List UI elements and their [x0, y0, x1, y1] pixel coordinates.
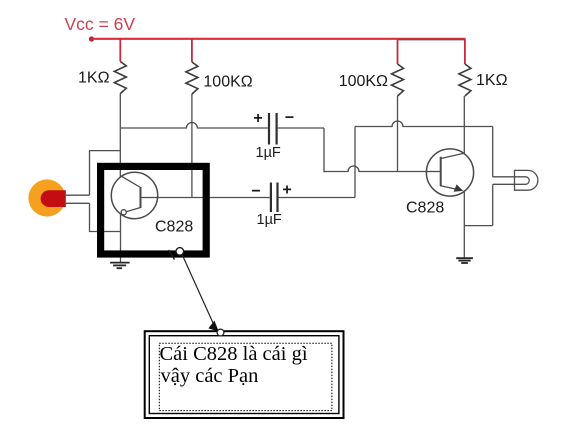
- svg-text:1KΩ: 1KΩ: [78, 70, 110, 87]
- wire R2 vertical down to Q1 base: [191, 94, 193, 198]
- wire R4 vertical down to Q2 collector: [463, 96, 465, 154]
- resistor R1 1KΩ: [114, 39, 126, 94]
- callout end circle: [217, 329, 224, 336]
- capacitor C2 1µF: [251, 182, 291, 229]
- svg-text:−: −: [285, 110, 294, 127]
- svg-text:−: −: [251, 183, 260, 200]
- wire A to Q2 base with hop over x355: [323, 166, 427, 171]
- lamp DS1: [493, 170, 538, 190]
- wire Q1 emitter vertical: [120, 215, 122, 263]
- svg-text:1KΩ: 1KΩ: [476, 72, 508, 89]
- wire lamp return horizontal: [464, 225, 492, 227]
- wire vertical x324: [323, 128, 325, 172]
- resistor R3 100KΩ: [392, 39, 404, 96]
- wire Q1 base horizontal: [158, 197, 270, 199]
- svg-text:1µF: 1µF: [256, 145, 281, 161]
- LED leads: [64, 194, 90, 196]
- wire B to Q2 collector node with hop over R3: [355, 121, 493, 127]
- Vcc rail: [89, 36, 466, 41]
- LED D1 glow: [28, 179, 65, 216]
- LED D1 body: [41, 190, 66, 207]
- transistor Q1 C828: [111, 172, 157, 218]
- resistor R4 1KΩ: [459, 39, 471, 96]
- svg-text:100KΩ: 100KΩ: [203, 74, 252, 91]
- callout anchor circle: [176, 248, 184, 256]
- callout anchor tick: [169, 250, 175, 260]
- wire lamp bottom vertical: [492, 184, 494, 225]
- ground right: [456, 258, 473, 263]
- svg-text:100KΩ: 100KΩ: [339, 73, 388, 90]
- wire LED bottom to emitter: [90, 203, 121, 231]
- svg-text:C828: C828: [155, 219, 193, 236]
- svg-text:C828: C828: [406, 200, 444, 217]
- wire bottom-cap right horizontal: [279, 197, 355, 199]
- callout arrowhead: [208, 321, 218, 332]
- svg-text:Vcc = 6V: Vcc = 6V: [65, 14, 136, 34]
- ground left: [110, 263, 130, 269]
- wire LED top to collector: [90, 151, 121, 196]
- svg-text:1µF: 1µF: [257, 212, 282, 228]
- text box inner border: [149, 336, 339, 414]
- wire lamp top vertical: [492, 127, 494, 177]
- svg-text:+: +: [282, 182, 291, 199]
- wire Q2 emitter vertical: [463, 191, 465, 259]
- wire vertical x355: [354, 127, 356, 198]
- wire R3 vertical down to Q2 base: [397, 96, 399, 172]
- wire top-cap right horizontal: [278, 127, 324, 129]
- callout leader line: [182, 255, 213, 324]
- text box dotted rect: [159, 343, 332, 410]
- wire Q1 collector vertical: [119, 94, 121, 178]
- wire top-cap left horizontal with hop over R2: [120, 123, 267, 129]
- transistor Q2 C828: [426, 149, 473, 196]
- capacitor C1 1µF: [253, 110, 294, 162]
- svg-text:vậy các Pạn: vậy các Pạn: [161, 365, 259, 387]
- svg-text:Cái C828 là cái gì: Cái C828 là cái gì: [160, 343, 308, 365]
- svg-text:+: +: [253, 110, 262, 127]
- highlight box around Q1: [101, 166, 207, 254]
- text box outer border: [145, 331, 344, 418]
- resistor R2 100KΩ: [186, 39, 198, 94]
